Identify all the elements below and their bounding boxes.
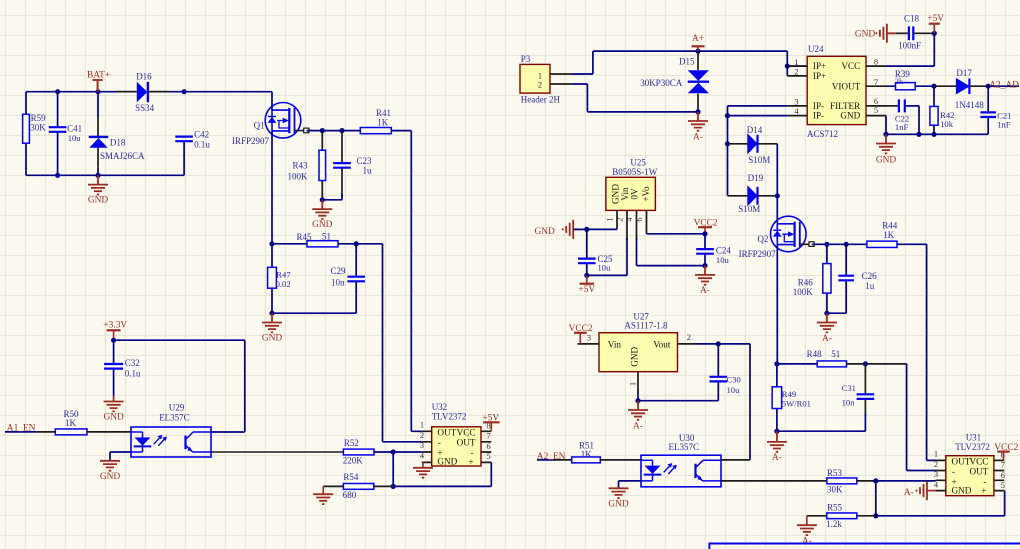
node GND row pin5	[883, 132, 888, 137]
svg-text:1K: 1K	[377, 118, 389, 128]
svg-text:1nF: 1nF	[997, 120, 1011, 130]
resistor R53 30K	[827, 478, 857, 484]
wire U30 cathode to GND	[619, 481, 642, 488]
svg-text:10u: 10u	[598, 263, 612, 273]
wire U29 emitter to R52	[211, 451, 343, 453]
svg-text:GND: GND	[534, 227, 555, 237]
svg-text:IP+: IP+	[813, 61, 826, 71]
svg-text:A2_AD: A2_AD	[989, 81, 1019, 91]
svg-text:D19: D19	[748, 173, 764, 183]
node A- under D15	[695, 109, 700, 114]
svg-text:10u: 10u	[716, 255, 730, 265]
wire R55 row to U31 pin5	[1004, 491, 1006, 516]
resistor R59	[25, 92, 27, 176]
svg-text:GND: GND	[855, 30, 876, 40]
svg-text:Q2: Q2	[757, 234, 768, 244]
resistor R39 2k	[886, 85, 934, 87]
resistor R46 100K	[826, 244, 828, 313]
capacitor C29 10n	[355, 244, 357, 313]
node gate C26	[844, 242, 849, 247]
svg-text:-: -	[952, 467, 955, 477]
wire Q1 gate node	[307, 130, 361, 132]
svg-text:R44: R44	[882, 220, 898, 230]
svg-text:+5V: +5V	[578, 285, 595, 295]
wire U25 pin2 Vin to +5V	[587, 238, 627, 275]
wire Q1 source down	[271, 131, 273, 244]
node VCC2 C24	[702, 231, 707, 236]
op-amp U31 TLV2372	[946, 456, 994, 496]
svg-text:Q1: Q1	[254, 120, 265, 130]
svg-text:A1_EN: A1_EN	[7, 424, 36, 434]
svg-text:1: 1	[934, 450, 938, 459]
diode D16 SS34	[117, 91, 169, 93]
wire R43 C23 bottoms	[322, 199, 342, 201]
net label A2_AD	[988, 85, 1019, 87]
capacitor C41	[57, 92, 59, 176]
node C30 top	[716, 341, 721, 346]
svg-text:10u: 10u	[68, 133, 82, 143]
svg-text:R49: R49	[782, 389, 796, 399]
power port A- under C24	[695, 266, 715, 285]
svg-text:VCC: VCC	[969, 456, 988, 466]
wire R52 node to R54 node	[392, 452, 394, 486]
svg-text:0.02: 0.02	[276, 279, 291, 289]
svg-text:Header 2H: Header 2H	[521, 95, 561, 105]
wire U25 pin6 +Vo to VCC2	[647, 233, 706, 235]
svg-text:GND: GND	[103, 412, 124, 422]
node C41 bottom	[55, 173, 60, 178]
svg-text:7: 7	[487, 432, 491, 441]
svg-text:S10M: S10M	[738, 204, 760, 214]
U24 right pin stubs	[866, 66, 886, 116]
power port A- under R49	[767, 431, 787, 452]
IC U24 ACS712	[807, 56, 866, 124]
wire D14 to D19 node	[776, 144, 778, 196]
svg-text:+: +	[468, 457, 473, 467]
node C41 top	[55, 89, 60, 94]
svg-text:IP-: IP-	[813, 111, 824, 121]
node Q1 source R45	[269, 241, 274, 246]
resistor R55 1.2k	[807, 515, 827, 517]
node +3.3V	[111, 338, 116, 343]
svg-text:3: 3	[420, 441, 424, 450]
svg-text:R55: R55	[827, 502, 843, 512]
svg-text:C18: C18	[904, 13, 920, 23]
node A2_AD C21	[986, 84, 991, 89]
svg-text:B0505S-1W: B0505S-1W	[612, 167, 658, 177]
svg-text:680: 680	[343, 490, 357, 500]
power port A- under U27	[628, 401, 648, 420]
svg-text:3: 3	[587, 333, 591, 342]
wire U24 pins 3 4 to diodes	[728, 106, 788, 196]
wire GND to U25 pin1	[573, 228, 617, 230]
U24 left pin stubs	[787, 66, 807, 116]
svg-text:2: 2	[420, 431, 424, 440]
capacitor C30 10u	[638, 344, 718, 401]
node C25 top	[584, 227, 589, 232]
wire U30 emitter to R53	[721, 480, 741, 482]
node Q2 source R48	[774, 361, 779, 366]
node A+	[695, 49, 700, 54]
svg-text:+: +	[981, 486, 986, 496]
svg-text:220K: 220K	[343, 455, 364, 465]
wire R46 C26 bottoms	[827, 312, 846, 314]
svg-text:A-: A-	[772, 453, 782, 463]
svg-text:GND: GND	[262, 334, 283, 344]
svg-text:R59: R59	[31, 113, 47, 123]
svg-text:5: 5	[1001, 481, 1005, 490]
node gate R46	[824, 242, 829, 247]
svg-text:1: 1	[605, 217, 614, 221]
svg-text:GND: GND	[100, 472, 121, 482]
node GND row R42	[931, 132, 936, 137]
resistor R49 5W/R01	[776, 364, 778, 431]
node R54 row	[391, 484, 396, 489]
svg-text:51: 51	[831, 349, 840, 359]
svg-text:1K: 1K	[65, 418, 77, 428]
svg-text:1K: 1K	[883, 230, 895, 240]
diode D17 1N4148	[934, 85, 956, 87]
ground GND under R47	[262, 313, 282, 332]
svg-text:IRFP2907: IRFP2907	[232, 136, 270, 146]
svg-text:VIOUT: VIOUT	[832, 81, 861, 91]
svg-text:C30: C30	[727, 374, 741, 384]
U31 right pin stubs 8-5	[994, 460, 1004, 490]
diode D19 S10M	[728, 195, 778, 197]
svg-text:R54: R54	[343, 472, 359, 482]
svg-text:Vout: Vout	[653, 340, 671, 350]
ground GND under R43	[312, 200, 332, 219]
resistor R42 10k	[933, 86, 935, 134]
svg-text:R43: R43	[293, 161, 309, 171]
power port A- under R46	[817, 313, 837, 332]
TVS diode D15 30KP30CA	[697, 51, 699, 112]
svg-text:U29: U29	[169, 403, 185, 413]
svg-text:10n: 10n	[842, 397, 856, 407]
svg-text:0.1u: 0.1u	[194, 139, 210, 149]
svg-text:+Vo: +Vo	[641, 186, 651, 202]
capacitor C26 1u	[845, 244, 847, 313]
IC U25 B0505S-1W	[606, 177, 656, 210]
node R43 bottom	[320, 197, 325, 202]
node BAT+ / D18 top	[95, 89, 100, 94]
svg-text:Vin: Vin	[620, 187, 630, 201]
node gate R43	[320, 128, 325, 133]
svg-text:C41: C41	[67, 124, 82, 134]
svg-text:R45: R45	[297, 232, 313, 242]
svg-text:U32: U32	[432, 402, 448, 412]
svg-text:VCC: VCC	[841, 61, 860, 71]
wire shunt bottoms	[272, 312, 356, 314]
resistor R48 51	[777, 363, 817, 365]
svg-text:GND: GND	[437, 457, 457, 467]
svg-text:1.2k: 1.2k	[826, 519, 842, 529]
svg-text:0V: 0V	[630, 188, 640, 200]
wire bottom rail to GND	[26, 142, 184, 176]
svg-text:SS34: SS34	[135, 103, 155, 113]
node R48 C31	[863, 361, 868, 366]
svg-text:2: 2	[934, 460, 938, 469]
svg-text:100K: 100K	[793, 287, 814, 297]
node R45 C29	[354, 241, 359, 246]
svg-text:10k: 10k	[940, 119, 954, 129]
svg-text:10u: 10u	[727, 385, 741, 395]
svg-text:D18: D18	[110, 138, 126, 148]
svg-text:A+: A+	[692, 34, 704, 44]
svg-text:6: 6	[874, 97, 878, 106]
node U24 pin1	[785, 64, 790, 69]
svg-text:R52: R52	[344, 438, 359, 448]
svg-text:1nF: 1nF	[895, 122, 909, 132]
svg-text:30K: 30K	[30, 122, 46, 132]
ground GND under R54 left	[322, 486, 324, 494]
svg-text:R53: R53	[827, 468, 843, 478]
svg-text:51: 51	[322, 232, 331, 242]
svg-text:Vin: Vin	[608, 340, 622, 350]
svg-text:0.1u: 0.1u	[125, 368, 141, 378]
resistor R51 1K	[572, 457, 601, 463]
wire sheet boundary bottom right	[709, 544, 1020, 549]
svg-text:1u: 1u	[363, 166, 373, 176]
U27 pin stubs	[579, 344, 698, 391]
svg-text:TLV2372: TLV2372	[955, 442, 990, 452]
svg-text:OUT: OUT	[970, 466, 989, 476]
optocoupler U29 EL357C	[131, 427, 211, 457]
svg-text:SMAJ26CA: SMAJ26CA	[100, 151, 145, 161]
svg-text:1: 1	[538, 71, 542, 80]
resistor R45 51	[307, 241, 338, 247]
diode D14 S10M	[728, 143, 778, 145]
svg-text:5: 5	[487, 452, 491, 461]
svg-text:1: 1	[420, 421, 424, 430]
wire +3.3V to U29 collector	[114, 340, 245, 432]
U32 right pin stubs 8-5	[481, 431, 491, 462]
node R47 bottom	[269, 311, 274, 316]
svg-text:P3: P3	[521, 54, 531, 64]
ground GND U30 cathode	[609, 488, 629, 498]
svg-text:C23: C23	[357, 156, 373, 166]
capacitor C18 100nF	[896, 32, 909, 34]
svg-text:1u: 1u	[865, 281, 875, 291]
svg-text:R46: R46	[798, 277, 814, 287]
U31 left pin stubs 1-4	[936, 460, 946, 490]
resistor R44 1K	[867, 241, 897, 247]
transistor Q1 IRFP2907	[265, 103, 301, 139]
wire R41 to U32 pin1	[411, 131, 421, 432]
power port A- under D15	[688, 112, 708, 131]
node D14 left	[725, 141, 730, 146]
node R55 row	[873, 513, 878, 518]
capacitor C24 10u	[704, 234, 706, 266]
svg-text:30KP30CA: 30KP30CA	[640, 78, 683, 88]
svg-text:A-: A-	[633, 421, 643, 431]
node C42 top	[182, 89, 187, 94]
capacitor C31 10n	[864, 364, 866, 416]
U25 pin stubs down	[617, 210, 647, 240]
capacitor C25 10u	[586, 229, 588, 275]
svg-text:1: 1	[628, 382, 637, 386]
svg-text:2: 2	[687, 333, 691, 342]
IC U27 AS1117-1.8	[599, 333, 678, 372]
svg-text:2: 2	[538, 81, 542, 90]
svg-text:EL357C: EL357C	[669, 442, 700, 452]
ground GND at U32 pin4	[422, 462, 424, 467]
wire U25 pin4 0V to A-	[637, 238, 706, 266]
svg-text:GND: GND	[952, 486, 972, 496]
wire pin5 feedback	[490, 462, 492, 486]
wire source row	[272, 243, 307, 245]
U32 left pin stubs 1-4	[422, 431, 432, 462]
svg-text:7: 7	[1001, 461, 1005, 470]
node R53 pin3	[873, 478, 878, 483]
net label A2_EN	[537, 459, 553, 461]
svg-text:GND: GND	[88, 196, 109, 206]
svg-text:BAT+: BAT+	[87, 71, 110, 81]
capacitor C22 1nF filter	[886, 105, 899, 107]
node GND row C22	[916, 132, 921, 137]
svg-text:100K: 100K	[288, 172, 309, 182]
resistor R41 1K	[391, 130, 411, 132]
node pin4 tap	[725, 113, 730, 118]
svg-text:A-: A-	[822, 334, 832, 344]
node A- C24	[702, 263, 707, 268]
svg-text:S10M: S10M	[748, 155, 770, 165]
svg-text:C29: C29	[331, 266, 347, 276]
svg-text:R47: R47	[276, 269, 291, 279]
svg-text:C26: C26	[862, 271, 878, 281]
svg-text:VCC: VCC	[457, 427, 476, 437]
svg-text:A2_EN: A2_EN	[537, 452, 566, 462]
svg-text:R41: R41	[376, 108, 391, 118]
node R49 bottom	[774, 429, 779, 434]
svg-text:6: 6	[487, 442, 491, 451]
op-amp U32 TLV2372	[432, 427, 481, 466]
capacitor C21 1nF	[987, 86, 989, 134]
svg-text:U24: U24	[808, 44, 824, 54]
wire R53 node down	[875, 481, 877, 516]
svg-text:D17: D17	[956, 68, 972, 78]
wire U27 Vout to C30 and U30	[698, 344, 751, 460]
node +5V C18	[932, 31, 937, 36]
resistor R50 1K	[55, 429, 87, 435]
wire R45 to U32 pin2	[383, 244, 422, 442]
svg-text:A-: A-	[802, 537, 812, 547]
svg-text:GND: GND	[610, 184, 620, 204]
svg-text:A-: A-	[693, 132, 703, 142]
wire BAT+ rail to Q1 drain	[271, 92, 273, 111]
svg-text:R48: R48	[807, 349, 823, 359]
node U27 GND	[635, 398, 640, 403]
svg-text:5: 5	[874, 106, 878, 115]
TVS diode D18 SMAJ26CA	[97, 92, 99, 176]
svg-text:A-: A-	[700, 286, 710, 296]
resistor R47 0.02 shunt	[271, 244, 273, 313]
svg-text:C42: C42	[194, 130, 209, 140]
optocoupler U30 EL357C	[641, 455, 721, 487]
svg-text:8: 8	[874, 57, 878, 66]
svg-text:-: -	[438, 438, 441, 448]
ground GND U29 cathode	[100, 461, 120, 471]
svg-text:30K: 30K	[827, 485, 843, 495]
node D18 bottom	[95, 173, 100, 178]
resistor R43 100K	[321, 131, 323, 200]
svg-text:6: 6	[1001, 471, 1005, 480]
node R42 top	[931, 84, 936, 89]
svg-text:FILTER: FILTER	[830, 101, 861, 111]
svg-text:EL357C: EL357C	[159, 412, 190, 422]
wire U27 GND pin1	[637, 391, 639, 401]
svg-text:1K: 1K	[581, 449, 593, 459]
svg-text:OUT: OUT	[952, 456, 971, 466]
node R46 bottom	[824, 311, 829, 316]
svg-text:100nF: 100nF	[898, 40, 921, 50]
svg-text:2k: 2k	[895, 77, 904, 86]
wire Q2 gate node	[812, 243, 867, 245]
wire +5V to U24 pin8 VCC	[886, 33, 934, 66]
svg-text:C31: C31	[842, 383, 856, 393]
power port +5V under C25	[586, 275, 588, 283]
node C25 bottom	[584, 273, 589, 278]
ground GND under U24	[876, 134, 896, 153]
svg-text:GND: GND	[840, 111, 860, 121]
transistor Q2 IRFP2907	[776, 196, 778, 224]
ground GND under C32	[104, 396, 124, 412]
wire Q2 source down to R48	[776, 245, 778, 364]
svg-text:2: 2	[615, 217, 624, 221]
svg-text:D14: D14	[747, 125, 763, 135]
svg-text:A-: A-	[904, 488, 914, 498]
wire top rail BAT+ net	[26, 91, 272, 93]
wire U29 cathode to GND	[110, 452, 131, 461]
svg-text:C32: C32	[125, 358, 140, 368]
power port A- under R55 left	[806, 516, 808, 525]
capacitor C32 0.1u	[113, 340, 115, 396]
wire P3 pin1 to A+ rail	[571, 51, 787, 74]
wire U30 collector to VCC2 rail	[721, 459, 750, 461]
net label A1_EN	[5, 431, 36, 433]
svg-text:GND: GND	[608, 499, 629, 509]
svg-text:IP-: IP-	[813, 101, 824, 111]
wire P3 pin2 to A- node	[571, 84, 698, 112]
connector P3 Header 2H	[520, 64, 550, 93]
svg-text:GND: GND	[876, 156, 897, 166]
svg-text:GND: GND	[630, 346, 640, 366]
wire GND row under U24	[886, 116, 988, 135]
svg-text:ACS712: ACS712	[807, 129, 838, 139]
svg-text:1N4148: 1N4148	[955, 100, 984, 110]
wire R48 to U31 pin2	[907, 364, 936, 471]
wire A+ rail to U24 pins 1 2	[787, 51, 807, 76]
svg-text:3: 3	[934, 470, 938, 479]
svg-text:IP+: IP+	[813, 71, 826, 81]
svg-text:AS1117-1.8: AS1117-1.8	[624, 321, 668, 331]
svg-text:OUT: OUT	[457, 437, 476, 447]
resistor R54 680	[374, 485, 393, 487]
svg-text:5W/R01: 5W/R01	[782, 398, 811, 408]
ground GND battery	[88, 175, 108, 194]
node Q2 drain	[775, 193, 780, 198]
svg-text:6: 6	[635, 217, 644, 221]
capacitor C23 1u	[341, 131, 343, 196]
wire R44 to U31 pin1	[897, 244, 936, 460]
resistor R52 220K	[343, 449, 374, 455]
capacitor C42	[175, 137, 193, 142]
svg-text:OUT: OUT	[437, 427, 456, 437]
svg-text:GND: GND	[312, 220, 333, 230]
svg-text:D16: D16	[136, 72, 152, 82]
svg-text:10n: 10n	[331, 278, 345, 288]
node gate C23	[339, 128, 344, 133]
